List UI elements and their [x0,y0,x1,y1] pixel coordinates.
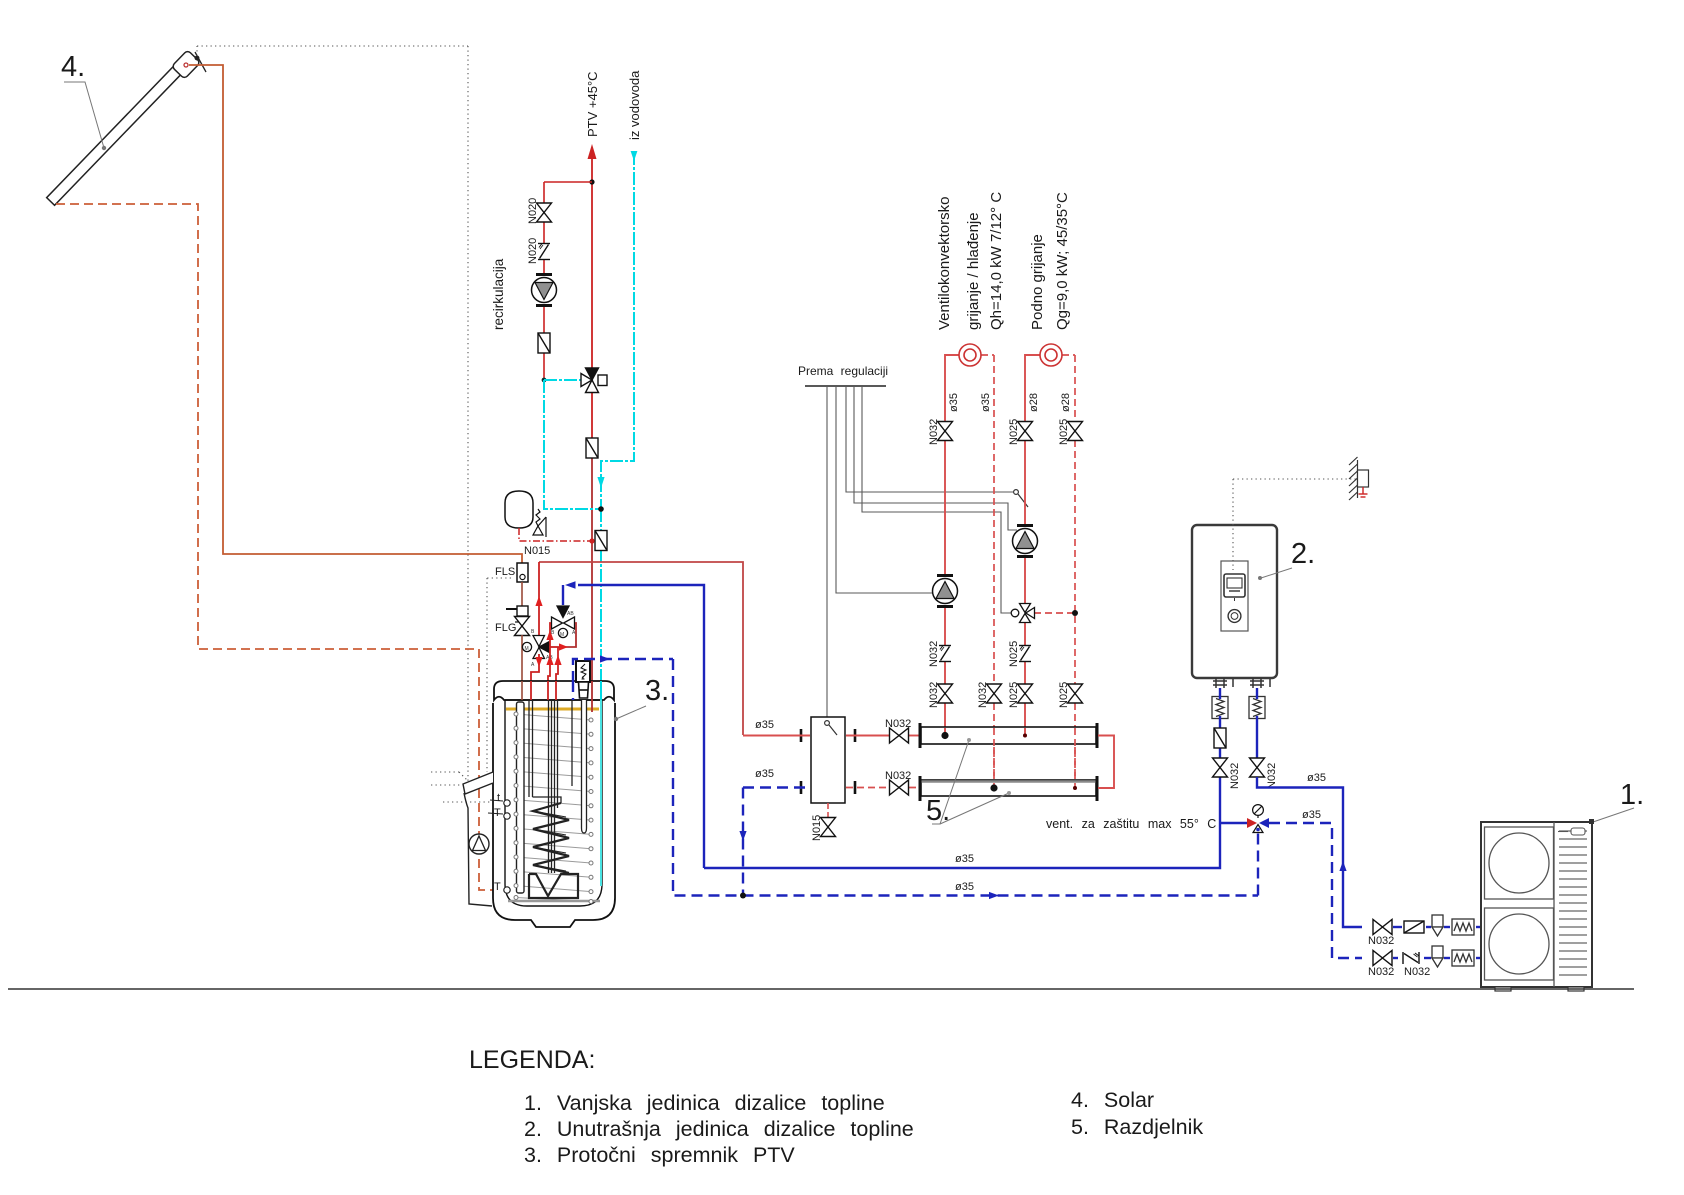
tank inner vessel [505,700,602,906]
svg-text:ø35: ø35 [1302,809,1321,821]
svg-text:N032: N032 [885,770,911,782]
branch pipes across manifolds [945,728,1025,736]
svg-text:3. Protočni spremnik PTV: 3. Protočni spremnik PTV [524,1143,795,1167]
PTV arrow up [588,144,597,159]
valve N032 return bottom [987,684,1002,703]
thermowell pocket [582,700,587,833]
svg-text:ø35: ø35 [955,881,974,893]
svg-text:Qg=9,0 kW; 45/35°C: Qg=9,0 kW; 45/35°C [1054,192,1071,330]
dash-dot connection line [519,528,592,541]
wall hatch circles [514,712,593,904]
station pump [469,834,489,854]
wire to zone valve [862,386,1011,613]
supply pipe [945,355,959,727]
valve A to tank [531,654,539,700]
node blue junction [740,893,746,899]
3-way valve M lower (B top, A bottom, AB right) [522,636,549,659]
manifold junction nodes [941,732,948,739]
cold water dip tube (inside) [600,700,602,886]
floor pump [1013,526,1038,557]
tank lid [494,681,614,700]
valve N025 supply bottom [1018,684,1033,703]
svg-text:PTV +45°C: PTV +45°C [585,71,600,137]
separator to manifold supply + valve N032 [846,735,889,737]
sensor cable dotted [197,46,511,802]
valve N020 [537,203,552,222]
diffuser pipe [571,700,573,786]
svg-text:5.: 5. [926,795,950,827]
supply run y=927: N032 + filter + airvent + flex [1393,926,1481,928]
svg-text:N032: N032 [928,641,940,667]
svg-text:4.: 4. [61,51,85,83]
valve N025 supply top [1018,422,1033,441]
supply blue solid: indoor unit to tank valve [563,585,1247,868]
svg-text:T: T [494,807,501,819]
separator drain + N015 valve [827,803,829,818]
wire to pump fan-coil [836,386,932,593]
AB to junction [549,646,558,648]
return blue dashed: tank loop [573,659,1258,896]
zone 3-way valve [1011,604,1034,623]
pipe FLG to tank [521,635,523,700]
svg-text:N032: N032 [1368,935,1394,947]
valve N025 return bottom [1068,684,1083,703]
FLS flow sensor [517,563,528,582]
blue dashed arrows [600,655,610,662]
3-way valve M upper (fed by blue) [552,606,575,638]
solar return pipe (dashed) [56,204,504,890]
pipe thermostat contact [1014,490,1019,495]
svg-text:ø35: ø35 [948,393,960,412]
bottom chamber with zigzag [529,874,578,898]
flex connectors under unit [1212,697,1228,719]
svg-text:3.: 3. [645,675,669,707]
valve outlet dashed right [1269,823,1362,958]
pipe FLS to FLG [521,582,523,609]
control panel [1221,561,1248,631]
svg-text:iz vodovoda: iz vodovoda [627,70,642,140]
manifold right-end bypass [1098,736,1114,789]
upper manifold [921,727,1096,744]
svg-text:ø35: ø35 [1307,772,1326,784]
solar supply pipe (solid) [189,65,522,563]
separator sensor [825,721,830,726]
check valve N025 [1019,646,1031,662]
PTV riser pipe [591,156,593,369]
thermometer circle floor [1040,344,1062,366]
iz vodovoda drop [601,152,634,509]
svg-text:FLG: FLG [495,622,516,634]
svg-text:N032: N032 [1266,763,1278,789]
svg-text:5. Razdjelnik: 5. Razdjelnik [1071,1115,1203,1139]
return pipe dashed [1034,355,1075,780]
room stat dotted wiring [1233,479,1357,570]
thermometer circle fan-coil [959,344,981,366]
check valve N020 [538,244,550,260]
wire to separator sensor [826,386,828,719]
svg-text:2. Unutrašnja jedinica diza: 2. Unutrašnja jedinica dizalice topline [524,1117,914,1141]
expansion vessel [505,491,533,528]
recirc branch pipe [544,181,592,183]
return blue dashed from separator [743,786,810,789]
svg-text:M: M [525,646,529,652]
node cold junction [598,506,604,512]
svg-text:Prema regulaciji: Prema regulaciji [798,364,888,378]
svg-text:1.: 1. [1620,779,1644,811]
svg-text:N015: N015 [524,545,550,557]
wire to pump floor [854,386,1017,530]
svg-text:ø35: ø35 [955,853,974,865]
svg-text:N032: N032 [1229,763,1241,789]
valve N032 top [938,422,953,441]
svg-text:N032: N032 [1404,966,1430,978]
gray bottom band [508,900,600,902]
svg-text:ø35: ø35 [755,768,774,780]
strainer [538,333,550,353]
lower manifold [921,780,1096,796]
cyan flow arrow [597,477,604,488]
yellow level line [506,708,599,711]
red arrow up [535,596,542,606]
svg-text:N025: N025 [1008,419,1020,445]
svg-text:FLS: FLS [495,566,515,578]
svg-text:N025: N025 [1008,682,1020,708]
svg-text:N025: N025 [1058,682,1070,708]
wire to pipe thermostat [846,386,1013,492]
svg-text:N032: N032 [928,419,940,445]
heat exchanger coil [533,803,569,873]
check valve N032 [939,646,951,662]
left pipe: filter + N032 [1219,688,1221,699]
solar collector 4. panel [47,50,201,205]
svg-text:grijanje / hlađenje: grijanje / hlađenje [965,212,982,330]
svg-text:T: T [494,881,501,893]
svg-text:t: t [497,792,500,804]
svg-text:N015: N015 [811,815,823,841]
node at recirc/cold junction [542,378,547,383]
down to tank [600,509,602,532]
3-way thermostatic mixing valve PTV [581,368,607,393]
inner pipe from B-port [529,700,561,803]
valve N032 bottom [938,684,953,703]
svg-text:N032: N032 [928,682,940,708]
svg-text:vent. za zaštitu max 55° C: vent. za zaštitu max 55° C [1046,817,1216,831]
right pipe: N032 down to corner [1256,688,1258,699]
svg-text:Podno grijanje: Podno grijanje [1029,234,1046,330]
safety fitting on lid [576,661,590,682]
safety valve N015 [533,509,546,537]
svg-text:LEGENDA:: LEGENDA: [469,1046,595,1074]
pipes crossing tank lid [522,681,601,712]
return pipe dashed [981,355,994,780]
tank body outline [493,703,615,927]
valve A port pipe down [558,623,576,647]
feet [1495,987,1511,991]
fan-coil pump [933,576,958,607]
electric heater rod [517,702,525,893]
recirc pump [532,275,557,306]
heating supply from HP [539,562,743,735]
junction node recirc [589,179,594,184]
svg-text:N032: N032 [1368,966,1394,978]
svg-text:4. Solar: 4. Solar [1071,1088,1154,1112]
svg-text:N020: N020 [527,198,539,224]
separator to manifold return dashed + valve N032 [846,787,889,789]
ground line [8,988,1634,990]
tank side fittings t/T [504,800,510,893]
svg-text:ø35: ø35 [755,719,774,731]
collector outlet dot [184,63,188,67]
svg-text:ø28: ø28 [1028,393,1040,412]
water meter on cold line [595,531,607,551]
svg-text:ø35: ø35 [980,393,992,412]
FLG valve with actuator [517,606,528,616]
wall bracket + thermostat [1349,457,1369,500]
valve B port pipe down [548,623,551,700]
svg-text:N032: N032 [885,718,911,730]
svg-text:N025: N025 [1008,641,1020,667]
red flow arrows [546,630,553,640]
svg-text:M: M [560,632,564,638]
svg-text:recirkulacija: recirkulacija [491,258,506,330]
meter on PTV riser [586,438,598,458]
collector temp sensor [195,52,206,72]
blue arrow left on supply [565,581,576,589]
svg-text:ø28: ø28 [1060,393,1072,412]
supply red into separator [743,735,810,737]
svg-text:AB: AB [567,611,574,617]
svg-text:2.: 2. [1291,538,1315,570]
central pipe bundle [549,700,558,873]
svg-text:N025: N025 [1058,419,1070,445]
cold to mixing valve branch [544,379,581,381]
svg-text:Ventilokonvektorsko: Ventilokonvektorsko [936,197,953,330]
cyan start cap [631,151,638,161]
svg-text:Qh=14,0 kW 7/12° C: Qh=14,0 kW 7/12° C [988,192,1005,330]
unit bottom fittings [1213,678,1270,688]
svg-text:N020: N020 [527,238,539,264]
supply pipe [1025,355,1040,735]
tank insulation ties [516,714,591,902]
svg-text:N032: N032 [977,682,989,708]
separator flanges [801,729,855,794]
return run y=958: N032 + check + airvent + flex [1393,957,1398,959]
grille [1559,831,1587,975]
valve N025 return top [1068,422,1083,441]
solar pump station [463,772,493,794]
svg-text:1. Vanjska jedinica dizalic: 1. Vanjska jedinica dizalice topline [524,1091,885,1115]
